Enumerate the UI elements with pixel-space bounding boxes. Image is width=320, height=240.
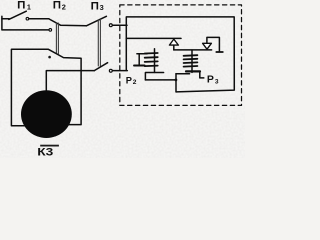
label К3 bbox=[37, 147, 53, 159]
wire П3 contact into box bbox=[113, 24, 127, 26]
wire right armature arm bbox=[207, 37, 220, 51]
svg-text:П: П bbox=[17, 0, 25, 12]
label П3 bbox=[91, 0, 104, 12]
contact П1 bbox=[26, 17, 29, 20]
relay coil P3 bottom bar bbox=[186, 70, 200, 72]
wire coil P2 bottom bbox=[145, 73, 163, 80]
wire lower contact into box bbox=[113, 70, 128, 72]
relay coil P3 core bbox=[191, 50, 193, 72]
wire coil P3 hook bbox=[200, 72, 204, 78]
inner unit frame bbox=[126, 17, 234, 92]
svg-text:Р: Р bbox=[126, 74, 132, 85]
switch П3 blade bbox=[86, 16, 106, 26]
switch П2 blade wire bbox=[49, 19, 87, 26]
wire W1 bbox=[174, 49, 212, 51]
contact П3 bbox=[109, 24, 112, 27]
relay coil P2 winding bbox=[145, 53, 158, 66]
wire bottom link bbox=[145, 79, 176, 81]
svg-text:2: 2 bbox=[133, 79, 137, 86]
contact plate P2 bbox=[134, 65, 145, 67]
relay coil P2 core bbox=[154, 49, 156, 73]
mechanical link П2 bbox=[56, 23, 58, 54]
wire П1 to П2 bbox=[29, 18, 49, 20]
wire riser to frame bottom bbox=[175, 74, 177, 92]
relay coil P3 winding bbox=[184, 55, 198, 66]
svg-text:К3: К3 bbox=[37, 147, 53, 158]
svg-text:2: 2 bbox=[62, 2, 66, 11]
contact foot plate bbox=[216, 51, 223, 53]
wire П1 pivot stub bbox=[2, 18, 9, 20]
junction dot bbox=[48, 56, 51, 59]
K3 motor circle bbox=[21, 90, 72, 138]
contact plate P2 link bbox=[137, 53, 147, 55]
dashed enclosure box bbox=[120, 5, 242, 106]
wire B from K3 top bbox=[46, 71, 94, 91]
label Р2 bbox=[126, 74, 137, 86]
contact П2 bbox=[49, 29, 52, 32]
wire under coil P3 bbox=[176, 73, 190, 75]
svg-text:П: П bbox=[53, 0, 61, 12]
label П2 bbox=[53, 0, 66, 12]
wire W0 armature P2 bbox=[126, 37, 181, 39]
junction dot P bbox=[175, 79, 178, 82]
armature triangle P2 bbox=[169, 39, 178, 45]
mechanical link П3 bbox=[98, 19, 100, 66]
contact plate P2 stem bbox=[138, 54, 140, 65]
svg-text:Р: Р bbox=[207, 75, 214, 86]
svg-text:П: П bbox=[91, 0, 99, 12]
label П1 bbox=[17, 0, 31, 12]
svg-text:1: 1 bbox=[27, 2, 31, 11]
svg-text:3: 3 bbox=[100, 3, 104, 12]
wire A loop to K3 bbox=[11, 49, 81, 125]
armature triangle P3 bbox=[203, 43, 212, 49]
label Р3 bbox=[207, 75, 219, 86]
svg-text:3: 3 bbox=[215, 78, 219, 85]
print artifact bar bbox=[40, 145, 59, 147]
switch П3 lower blade bbox=[94, 63, 107, 71]
wire triangle stem bbox=[173, 45, 175, 50]
switch П1 blade bbox=[9, 11, 27, 19]
wire left rail bbox=[2, 16, 49, 30]
contact П3 lower bbox=[109, 69, 112, 72]
